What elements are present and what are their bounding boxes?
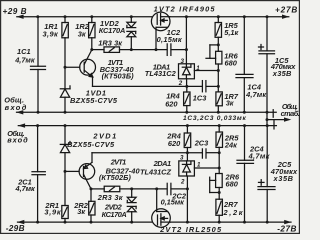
node base VT1 bottom (64, 170, 67, 173)
label 2R6 value (225, 173, 240, 189)
capacitor C4 1C4 4,7mk (236, 17, 253, 113)
resistor R5 1R5 5,1k (215, 17, 221, 52)
arrow Obsh vhod A (16, 110, 23, 114)
wire +27V top rail right segment (170, 16, 289, 18)
node top rail junctions (36, 15, 268, 18)
node gate line top junctions (90, 48, 188, 51)
svg-text:2VT2 IRL2505: 2VT2 IRL2505 (159, 225, 222, 234)
capacitor C3 1C3 (202, 81, 206, 92)
capacitor C8 2C3 (202, 149, 206, 158)
svg-text:620: 620 (165, 99, 178, 108)
zener diode VD4 2VD2 KS170A double (127, 189, 136, 222)
label 1R6 value (224, 52, 238, 68)
svg-text:1R3 3к: 1R3 3к (98, 39, 123, 48)
resistor R9 2R2 3k (89, 189, 95, 222)
svg-text:BZX55-C7V5: BZX55-C7V5 (70, 96, 118, 105)
label 1VD2 value (99, 19, 126, 35)
svg-text:вход: вход (5, 103, 27, 112)
svg-text:стаб.: стаб. (281, 109, 300, 118)
svg-text:BZX55-C7V5: BZX55-C7V5 (67, 140, 115, 149)
label Obsh stab (281, 102, 300, 118)
resistor R7 1R7 3k (216, 92, 222, 112)
node bottom rail junctions (36, 221, 269, 224)
arrow Obsh stab (284, 117, 291, 121)
svg-text:4,7мк: 4,7мк (14, 56, 36, 65)
svg-text:2: 2 (180, 179, 185, 186)
svg-text:1С3,2С3 0,033мк: 1С3,2С3 0,033мк (183, 115, 247, 122)
transistor Q4 2VT2 IRL2505 MOSFET (152, 189, 171, 227)
svg-text:4,7мк: 4,7мк (248, 152, 271, 161)
resistor R6 1R6 680 (216, 51, 222, 92)
arrow +29V (16, 15, 23, 19)
label Obsh vhod B (7, 129, 28, 145)
label 2C1 value (15, 178, 37, 194)
terminal tick rail A (272, 110, 274, 118)
label Obsh vhod A (4, 96, 27, 112)
arrow +27V (282, 15, 289, 19)
svg-text:680: 680 (226, 180, 239, 189)
svg-text:2VT1: 2VT1 (110, 158, 127, 167)
arrow -27V (284, 220, 291, 224)
resistor R1 1R1 3,9k (62, 17, 68, 67)
node ref pin1 bottom (218, 167, 221, 170)
svg-text:+29 В: +29 В (3, 7, 27, 16)
wire rail to gate node vertical (185, 17, 187, 50)
wire gate line bottom middle (120, 188, 167, 190)
wire gate node to bottom rail vertical (186, 189, 188, 222)
arrow -29V (17, 220, 24, 224)
zener diode VD2 1VD2 KS170A double (127, 17, 136, 50)
svg-text:3,9к: 3,9к (43, 29, 60, 38)
svg-text:1: 1 (196, 65, 200, 72)
svg-text:3: 3 (180, 155, 184, 162)
wire join verticals common rails (266, 112, 268, 125)
resistor R14 2R7 2,2k (216, 199, 223, 222)
svg-text:0,15мк: 0,15мк (157, 35, 183, 44)
svg-text:TL431C2: TL431C2 (145, 69, 177, 78)
wire VT1 emitter down (92, 77, 94, 87)
svg-text:х35В: х35В (273, 174, 294, 183)
svg-text:1С1: 1С1 (17, 47, 31, 56)
wire emitter line bottom right (206, 152, 219, 154)
wire +29V top rail left segment (17, 16, 152, 18)
svg-text:вход: вход (7, 136, 28, 145)
capacitor C10 2C5 470mk electrolytic (258, 126, 275, 223)
label 2DA1 value (140, 159, 171, 177)
wire gate line bottom right (171, 188, 187, 190)
svg-text:TL431CZ: TL431CZ (140, 168, 171, 177)
node stab arrow (266, 118, 269, 121)
wire gate line top right (171, 49, 186, 51)
svg-text:1VT2 IRF4905: 1VT2 IRF4905 (154, 5, 216, 14)
op-amp U2 2DA1 TL431CZ (179, 161, 195, 176)
wire gate line top (node R2 to R3) (92, 49, 104, 51)
svg-text:2,2к: 2,2к (223, 208, 244, 217)
label 2VD1 value (67, 131, 116, 149)
resistor R8 2R1 3,9k (62, 171, 68, 222)
transistor Q1 1VT1 BC337-40 (65, 50, 96, 77)
svg-text:680: 680 (225, 59, 238, 68)
capacitor C2 1C2 0,15mk (167, 44, 171, 56)
svg-text:х35В: х35В (272, 69, 292, 78)
svg-text:3: 3 (181, 58, 185, 65)
label 2R2 value (73, 201, 88, 216)
trimmer R13 2R6 680 wiper (210, 177, 220, 192)
wire TL431b anode pin 2 (186, 176, 188, 189)
resistor R4 1R4 620 (184, 86, 190, 112)
svg-text:3,9к: 3,9к (44, 207, 61, 216)
svg-text:+27В: +27В (275, 5, 297, 14)
svg-text:(КТ502Б): (КТ502Б) (99, 173, 132, 182)
node emitter line top junctions (185, 85, 220, 88)
wire VT1b emitter up (91, 153, 93, 163)
label 2R4 value (166, 132, 181, 148)
svg-text:2R3 3к: 2R3 3к (97, 193, 124, 202)
svg-text:1: 1 (197, 162, 201, 169)
svg-text:-27В: -27В (277, 225, 296, 234)
label 1VD1 value (70, 89, 118, 106)
label 2VD2 value (102, 203, 127, 220)
label 2C5 value (270, 160, 298, 183)
node gate line bottom junctions (90, 187, 189, 190)
svg-text:КС170А: КС170А (102, 210, 127, 219)
label 1R2 value (75, 22, 89, 38)
svg-text:1С3: 1С3 (193, 94, 207, 103)
resistor R10 2R3 3k (104, 186, 120, 192)
resistor R3 1R3 3k (104, 47, 120, 53)
resistor R12 2R5 24k (216, 126, 223, 174)
zener diode VD3 2VD1 BZX55-C7V5 (60, 126, 70, 172)
label 2R7 value (223, 200, 244, 217)
wire -27V bottom rail right segment (170, 221, 291, 223)
label 1VT1 value (100, 58, 135, 81)
terminal tick rail B (273, 121, 275, 129)
transistor Q2 1VT2 IRF4905 MOSFET (151, 12, 170, 50)
label 2C4 value (248, 145, 271, 161)
svg-text:3к: 3к (77, 207, 86, 216)
node R5 R6 wiper (217, 43, 220, 46)
node emitter line bottom junctions (186, 151, 221, 154)
wire TL431 anode pin 2 (186, 79, 188, 87)
svg-text:(КТ503Б): (КТ503Б) (102, 72, 135, 81)
label 1C4 value (245, 82, 267, 99)
wire emitter line left (93, 85, 203, 87)
label 1C2 value (157, 28, 183, 44)
node base VT1 (64, 66, 67, 69)
label 1C1 value (14, 47, 36, 65)
capacitor C9 2C4 4,7mk (237, 126, 254, 223)
svg-text:5,1к: 5,1к (224, 28, 239, 37)
node common rail A junctions (37, 111, 269, 114)
resistor R11 2R4 620 (184, 126, 191, 153)
label 1DA1 value (145, 63, 177, 79)
wire emitter line bottom left (92, 152, 202, 154)
capacitor C7 2C2 0,15mk (167, 183, 171, 194)
zener diode VD1 1VD1 BZX55-C7V5 (60, 67, 70, 112)
capacitor C5 1C5 470mk electrolytic (259, 17, 275, 113)
svg-text:24к: 24к (224, 141, 238, 150)
svg-text:КС170А: КС170А (99, 26, 126, 35)
capacitor C1 1C1 4,7mk (31, 17, 46, 113)
label 2R5 value (224, 134, 239, 150)
transistor Q3 2VT1 BC327-40 (65, 162, 95, 189)
label 2C2 value (161, 191, 187, 206)
svg-text:-29В: -29В (6, 224, 25, 233)
node common rail B junctions (36, 124, 269, 127)
wire TL431 cathode pin 3 (185, 50, 187, 64)
svg-text:0,15мк: 0,15мк (161, 197, 186, 206)
capacitor C6 2C1 4,7mk (32, 126, 45, 223)
wire gate line top middle (120, 49, 168, 51)
node R6 R7 wiper bottom (218, 191, 221, 194)
label 1R5 value (224, 21, 239, 37)
wire TL431 ref pin 1 (194, 70, 218, 72)
wire TL431b cathode pin 3 (186, 153, 188, 161)
label 2R1 value (44, 201, 61, 216)
label 2VT1 value (99, 158, 141, 182)
wire common rail top (Obsh vhod A) (17, 111, 277, 113)
label 1R4 value (165, 91, 180, 108)
resistor R13 2R6 680 (216, 174, 223, 200)
svg-text:3к: 3к (78, 29, 87, 38)
arrow Obsh vhod B (18, 123, 25, 127)
label 1R7 value (224, 92, 238, 108)
svg-text:3к: 3к (226, 99, 235, 108)
svg-text:620: 620 (168, 139, 181, 148)
wire TL431b ref pin 1 (194, 167, 219, 169)
svg-text:4,7мк: 4,7мк (15, 184, 37, 193)
label 1C5 value (270, 56, 296, 78)
node ref pin1 top (217, 69, 220, 72)
label 1R1 value (43, 22, 60, 38)
svg-text:2С3: 2С3 (194, 139, 209, 148)
svg-text:2: 2 (178, 80, 183, 87)
wire gate line bottom left (91, 188, 104, 190)
trimmer R6 1R6 680 wiper (206, 45, 218, 58)
wire Obsh stab arrow line (267, 119, 286, 121)
svg-text:4,7мк: 4,7мк (245, 90, 267, 99)
resistor R2 1R2 3k (89, 17, 95, 50)
wire common rail bottom (Obsh vhod B) (18, 125, 276, 127)
wire -29V bottom rail left segment (18, 221, 152, 223)
op-amp U1 1DA1 TL431C2 (179, 64, 195, 79)
wire emitter line right (206, 85, 218, 87)
